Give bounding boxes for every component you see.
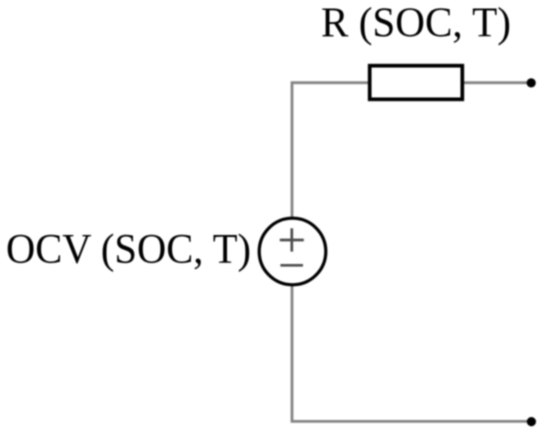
svg-text:OCV (SOC, T): OCV (SOC, T): [6, 227, 251, 273]
svg-text:R (SOC, T): R (SOC, T): [321, 1, 511, 47]
